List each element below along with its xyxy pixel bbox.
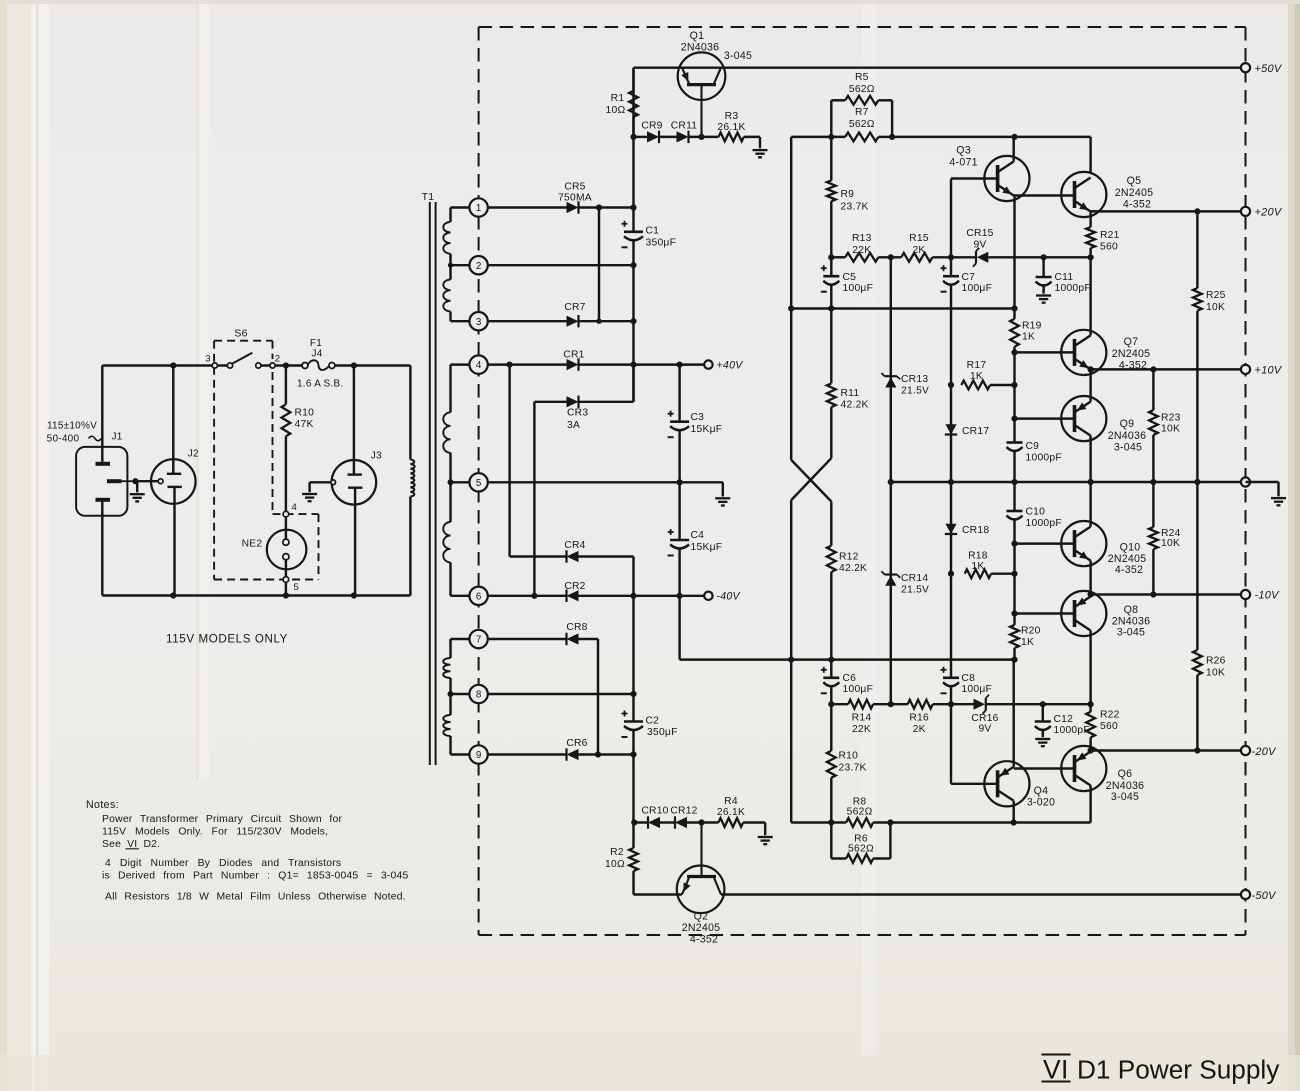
terminal -10V <box>1241 590 1250 599</box>
node R17 left <box>948 382 954 388</box>
wire tap4 to CR1 <box>488 363 567 365</box>
wire primary left vertical <box>101 366 103 450</box>
connector J2 <box>151 459 196 504</box>
node R22 top <box>1088 701 1094 707</box>
svg-text:50-400: 50-400 <box>47 434 80 445</box>
terminal +20V <box>1241 207 1250 216</box>
wire right chain lower R12 <box>830 502 832 546</box>
svg-text:D1 Power Supply: D1 Power Supply <box>1077 1055 1280 1085</box>
svg-text:R14: R14 <box>852 713 872 724</box>
svg-text:Q10: Q10 <box>1120 542 1141 554</box>
transformer tap 6 <box>469 587 487 605</box>
svg-text:10K: 10K <box>1161 538 1180 549</box>
node J3 bottom <box>351 592 357 598</box>
wire CR9-CR11 <box>659 136 677 138</box>
svg-text:42.2K: 42.2K <box>841 400 869 411</box>
wire CR9 line <box>634 136 648 138</box>
svg-text:1000pF: 1000pF <box>1026 453 1062 464</box>
svg-text:Q1: Q1 <box>690 30 705 42</box>
svg-text:3: 3 <box>476 317 482 328</box>
wire bus R19 <box>1010 319 1019 347</box>
diode CR11 <box>677 131 689 142</box>
svg-text:R10: R10 <box>839 751 859 762</box>
node CR13 bottom <box>888 479 894 485</box>
transformer tap 3 <box>469 312 487 330</box>
wire -10V line <box>1091 593 1246 595</box>
node bus CR7 <box>630 318 636 324</box>
svg-text:560: 560 <box>1100 721 1118 732</box>
transformer tap 9 <box>469 745 487 763</box>
svg-text:-40V: -40V <box>717 591 741 603</box>
svg-text:S6: S6 <box>234 328 247 340</box>
svg-text:1K: 1K <box>970 371 983 382</box>
wire +20V line <box>1091 210 1246 212</box>
dashed enclosure border right <box>1245 27 1247 935</box>
svg-text:Notes:: Notes: <box>86 799 119 811</box>
transistor Q8 2N4036 <box>1061 591 1106 636</box>
diode CR6 <box>567 749 579 760</box>
svg-text:CR8: CR8 <box>566 622 587 633</box>
wire CR3 to bus <box>579 401 634 403</box>
capacitor C6 100uF <box>830 660 832 678</box>
wire tap3 to CR7 <box>488 320 567 322</box>
wire CR10-CR12 <box>660 821 675 823</box>
node Q8 base <box>1011 610 1017 616</box>
resistor R22 560 <box>1086 712 1095 738</box>
svg-text:C11: C11 <box>1055 272 1074 283</box>
transistor Q10 2N2405 <box>1061 521 1106 566</box>
node R5R7 right <box>889 134 895 140</box>
svg-text:1000pF: 1000pF <box>1055 283 1091 294</box>
ground at tap5 <box>715 497 730 499</box>
svg-text:C7: C7 <box>962 272 976 283</box>
node bus 0V <box>1011 479 1017 485</box>
node R25R26 0V <box>1194 479 1200 485</box>
transistor Q3 4-071 <box>984 156 1029 201</box>
node S6-2/R10/F1 <box>283 362 289 368</box>
svg-text:R26: R26 <box>1206 656 1226 667</box>
wire Q4 collector riser <box>1012 801 1014 823</box>
svg-text:CR1: CR1 <box>563 350 584 361</box>
resistor R2 10ohm <box>632 823 634 849</box>
svg-text:C10: C10 <box>1026 507 1046 518</box>
node CR13 top <box>888 254 894 260</box>
svg-text:1K: 1K <box>971 561 984 572</box>
wire Q10 emitter riser <box>1089 561 1091 595</box>
node R20 bottom <box>1011 657 1017 663</box>
svg-text:R15: R15 <box>909 233 929 244</box>
transistor Q5 2N2405 <box>1061 172 1106 217</box>
node C8 bottom <box>948 701 954 707</box>
node filter tap5 <box>677 479 683 485</box>
wire CR4 to bus <box>579 555 634 557</box>
transformer tap 7 <box>469 630 487 648</box>
diode CR2 <box>567 590 579 601</box>
svg-text:750MA: 750MA <box>558 193 592 204</box>
svg-text:2N2405: 2N2405 <box>682 922 721 934</box>
resistor R9 23.7K <box>830 137 832 181</box>
svg-text:R3: R3 <box>725 111 739 122</box>
wire primary top <box>102 364 215 366</box>
svg-text:100μF: 100μF <box>962 283 993 294</box>
svg-text:VI: VI <box>1043 1055 1069 1085</box>
ground at C12 <box>1035 738 1050 740</box>
terminal +10V <box>1241 365 1250 374</box>
svg-text:2N2405: 2N2405 <box>1112 348 1151 360</box>
terminal +40V <box>704 360 712 368</box>
svg-text:+10V: +10V <box>1255 365 1283 377</box>
svg-text:1.6 A S.B.: 1.6 A S.B. <box>297 379 343 390</box>
node CR17 bottom <box>948 479 954 485</box>
svg-text:CR18: CR18 <box>962 525 989 536</box>
svg-text:10K: 10K <box>1206 302 1225 313</box>
svg-text:CR13: CR13 <box>901 374 928 385</box>
wire CR12 to R4 <box>687 821 718 823</box>
svg-text:350μF: 350μF <box>646 238 677 249</box>
node J1 center prong <box>132 478 138 484</box>
svg-text:Q9: Q9 <box>1120 418 1135 430</box>
fuse F1/J4 <box>302 363 308 369</box>
wire 0V line <box>891 481 1246 483</box>
transformer T1 primary winding <box>410 460 414 497</box>
resistor R10 47K <box>282 404 291 436</box>
node R25 top <box>1194 208 1200 214</box>
wire left chain lower <box>790 500 792 659</box>
ground at C11 <box>1036 294 1051 296</box>
ground at R3 <box>753 149 768 151</box>
diode CR4 <box>567 551 579 562</box>
wire Q10 collector riser <box>1089 482 1091 527</box>
transistor Q4 3-020 <box>984 761 1029 806</box>
svg-text:CR12: CR12 <box>670 806 697 817</box>
svg-text:C2: C2 <box>646 716 660 727</box>
svg-text:2N4036: 2N4036 <box>1108 430 1147 442</box>
svg-text:Q5: Q5 <box>1127 175 1142 187</box>
node C6 top <box>828 657 834 663</box>
svg-text:R25: R25 <box>1206 290 1226 301</box>
svg-text:R19: R19 <box>1022 321 1042 332</box>
node tap4 branch <box>507 362 513 368</box>
node Q9 collector 0V <box>1088 479 1094 485</box>
transformer tap 4 <box>469 355 487 373</box>
node R18 left <box>948 571 954 577</box>
transformer tap 2 <box>469 256 487 274</box>
node R21 bottom <box>1088 254 1094 260</box>
winding B loops 5-6 <box>443 522 450 562</box>
svg-text:CR15: CR15 <box>966 228 993 239</box>
wire C7 node to CR15 <box>951 256 976 258</box>
svg-text:4: 4 <box>292 502 298 513</box>
svg-text:J1: J1 <box>112 432 123 443</box>
wire C2 bus <box>632 596 634 722</box>
wire Q9 emitter riser <box>1089 369 1091 401</box>
winding C loops 8-9 <box>443 715 450 736</box>
switch S6 <box>212 363 217 368</box>
node Q9 base <box>1011 416 1017 422</box>
diode CR18 <box>945 524 956 534</box>
svg-text:10K: 10K <box>1161 424 1180 435</box>
svg-text:22K: 22K <box>852 724 871 735</box>
node bus CR1 <box>630 362 636 368</box>
ground at J1 <box>135 480 137 482</box>
wire Q9 base <box>1015 417 1075 419</box>
wire bias line upper <box>791 307 1014 309</box>
wire bus 352-385 <box>1013 352 1015 385</box>
svg-text:3-020: 3-020 <box>1027 797 1055 809</box>
svg-text:R23: R23 <box>1161 413 1181 424</box>
connector J1 <box>76 447 127 516</box>
svg-text:Q8: Q8 <box>1124 604 1139 616</box>
wire Q6 collector riser <box>1089 786 1091 823</box>
svg-text:C9: C9 <box>1026 441 1040 452</box>
diode CR5 750MA <box>567 202 579 213</box>
resistor R5 562ohm loop <box>830 100 832 137</box>
diode CR9 <box>647 131 659 142</box>
wire CR6 to bus <box>579 753 634 755</box>
wire CR16 to R22 <box>986 703 1091 705</box>
node C11 top <box>1041 254 1047 260</box>
node J3 top <box>351 362 357 368</box>
winding A vertical <box>449 208 451 222</box>
node +40V filter <box>677 362 683 368</box>
connector J3 <box>332 460 377 505</box>
lamp NE2 <box>267 530 307 570</box>
svg-text:1K: 1K <box>1022 332 1035 343</box>
svg-text:is Derived from Part Number :: is Derived from Part Number : Q1= 1853-0… <box>102 871 408 882</box>
transformer tap 5 <box>469 473 487 491</box>
tap 4 stub <box>451 363 470 365</box>
node bus CR9 <box>630 134 636 140</box>
svg-text:R21: R21 <box>1100 230 1120 241</box>
tap 1 stub <box>451 206 470 208</box>
node bus tap2 <box>630 262 636 268</box>
dashed enclosure border bottom <box>479 934 1246 936</box>
svg-text:23.7K: 23.7K <box>839 763 867 774</box>
svg-text:CR9: CR9 <box>641 121 662 132</box>
wire tap1 to CR5 <box>488 206 567 208</box>
svg-text:R22: R22 <box>1100 710 1120 721</box>
svg-text:CR16: CR16 <box>971 713 998 724</box>
wire J3 tip to ground <box>310 481 331 483</box>
wire R7 right to Q3 <box>892 136 1091 138</box>
svg-text:CR10: CR10 <box>641 806 668 817</box>
svg-text:1: 1 <box>476 203 481 214</box>
tap 2 stub <box>451 264 470 266</box>
svg-text:R2: R2 <box>610 847 624 858</box>
wire CR14 vertical <box>890 482 892 704</box>
svg-text:7: 7 <box>476 635 481 646</box>
resistor R24 10K <box>1152 482 1154 527</box>
diode CR16 9V <box>974 699 986 710</box>
node Q2 base <box>698 819 704 825</box>
node Q7 base <box>1011 349 1017 355</box>
dashed enclosure border left <box>478 27 480 935</box>
svg-text:100μF: 100μF <box>843 684 874 695</box>
dashed enclosure border top <box>479 26 1246 28</box>
svg-text:R5: R5 <box>855 72 869 83</box>
svg-text:3: 3 <box>205 354 211 365</box>
svg-text:CR5: CR5 <box>564 182 585 193</box>
resistor R15 2K <box>901 253 932 262</box>
svg-text:9: 9 <box>476 750 481 761</box>
node bus CR5 <box>630 204 636 210</box>
wire tap8 to bus <box>488 693 634 695</box>
svg-text:T1: T1 <box>422 191 435 203</box>
svg-text:-50V: -50V <box>1252 890 1278 902</box>
wire CR4 line left <box>510 555 567 557</box>
svg-text:C4: C4 <box>691 530 705 541</box>
wire filter bus C3C4 <box>678 365 680 422</box>
terminal -40V <box>704 592 712 600</box>
svg-text:4-071: 4-071 <box>949 157 977 169</box>
svg-text:1000pF: 1000pF <box>1054 725 1090 736</box>
terminal 0V <box>1241 477 1250 486</box>
wire S6-2 to R10 <box>285 366 287 405</box>
svg-text:3-045: 3-045 <box>1114 442 1142 454</box>
node left chain Y308 <box>788 305 794 311</box>
diode CR17 <box>945 424 956 434</box>
node CR2 out <box>630 593 636 599</box>
transistor Q6 2N4036 <box>1061 746 1106 791</box>
svg-text:C12: C12 <box>1054 714 1074 725</box>
tap 8 stub <box>451 693 470 695</box>
svg-text:115±10%V: 115±10%V <box>47 421 97 432</box>
node R13 left <box>828 254 834 260</box>
wire R8 line <box>791 821 846 823</box>
svg-text:R20: R20 <box>1021 626 1041 637</box>
ground at R4 <box>758 836 773 838</box>
svg-text:2: 2 <box>275 354 281 365</box>
transistor Q1 2N4036 <box>678 52 726 100</box>
wire tap2 to bus <box>488 264 634 266</box>
node CR10 left <box>631 819 637 825</box>
capacitor C5 100uF <box>830 257 832 276</box>
svg-text:21.5V: 21.5V <box>901 386 929 397</box>
wire CR8 riser <box>579 638 599 640</box>
node CR8 riser bottom <box>595 751 601 757</box>
svg-text:4 Digit Number By Diodes and T: 4 Digit Number By Diodes and Transistors <box>105 858 341 869</box>
tap 3 stub <box>451 320 470 322</box>
terminal -50V <box>1241 890 1250 899</box>
capacitor C3 15KuF <box>670 420 689 423</box>
node Q6 emitter junction <box>1088 747 1094 753</box>
svg-text:4: 4 <box>476 360 482 371</box>
svg-text:3-045: 3-045 <box>724 50 752 62</box>
svg-text:R7: R7 <box>855 107 869 118</box>
wire Q6 base line <box>1014 767 1075 769</box>
wire R7 to Q5 collector <box>1089 137 1091 172</box>
tap 5 stub <box>451 481 470 483</box>
diode CR1 <box>567 359 579 370</box>
resistor R14 22K <box>831 703 848 705</box>
svg-text:CR2: CR2 <box>564 581 585 592</box>
wire J1 to J2 <box>135 480 158 482</box>
wire bus R20 <box>1013 614 1015 625</box>
wire CR11 to R3 <box>689 136 719 138</box>
svg-text:15KμF: 15KμF <box>691 542 723 553</box>
diode CR12 <box>675 817 687 828</box>
svg-text:5: 5 <box>476 478 482 489</box>
svg-text:R13: R13 <box>852 233 872 244</box>
node CR5 riser bottom <box>596 319 601 324</box>
svg-text:J3: J3 <box>371 451 382 462</box>
node R24 bottom <box>1150 591 1156 597</box>
svg-text:Q3: Q3 <box>956 145 971 157</box>
svg-text:10K: 10K <box>1206 668 1225 679</box>
node C5 bottom <box>828 305 834 311</box>
wire X crossing <box>791 460 831 502</box>
node Q10 emitter junction <box>1088 591 1094 597</box>
terminal +50V <box>1241 63 1250 72</box>
wire CR5 to bus <box>579 206 634 208</box>
diode CR8 <box>567 633 579 644</box>
wire tap7 to CR8 <box>488 638 567 640</box>
diode CR7 <box>567 316 579 327</box>
svg-text:R1: R1 <box>611 93 625 104</box>
svg-text:R4: R4 <box>724 796 738 807</box>
svg-text:J2: J2 <box>188 449 199 460</box>
svg-text:+50V: +50V <box>1255 63 1283 75</box>
resistor R4 26.1K <box>718 818 743 827</box>
svg-text:3A: 3A <box>567 420 580 431</box>
svg-text:C3: C3 <box>691 412 705 423</box>
node J2 top <box>170 362 176 368</box>
resistor R6 562ohm loop <box>830 823 832 859</box>
svg-text:R9: R9 <box>841 189 855 200</box>
transistor Q7 2N2405 <box>1061 330 1106 375</box>
wire bus 543-613 <box>1013 544 1015 614</box>
resistor R3 26.1K <box>719 133 744 142</box>
svg-text:CR7: CR7 <box>564 302 585 313</box>
svg-text:8: 8 <box>476 690 482 701</box>
svg-text:C8: C8 <box>961 673 975 684</box>
svg-text:2: 2 <box>476 261 481 272</box>
svg-text:3-045: 3-045 <box>1111 791 1139 803</box>
node R10 bottom <box>828 819 834 825</box>
wire bus C10 <box>1013 482 1015 511</box>
wire CR3 line <box>534 401 566 403</box>
wire Q8 base <box>1015 612 1075 614</box>
transformer tap 1 <box>469 198 487 216</box>
node R26 bottom <box>1194 747 1200 753</box>
svg-text:562Ω: 562Ω <box>849 84 875 95</box>
node -40V filter <box>677 593 683 599</box>
svg-text:R11: R11 <box>841 388 860 399</box>
svg-text:4-352: 4-352 <box>1115 564 1143 576</box>
winding B loops 4-5 <box>443 412 450 452</box>
tap 9 stub <box>451 753 470 755</box>
node Q3 collector <box>1011 134 1017 140</box>
svg-text:R17: R17 <box>967 360 987 371</box>
transistor Q9 2N4036 <box>1061 396 1106 441</box>
svg-text:C6: C6 <box>843 673 857 684</box>
svg-text:C1: C1 <box>646 226 660 237</box>
wire Q7 base <box>1015 351 1075 353</box>
wire R8 line right <box>890 821 1090 823</box>
svg-text:15KμF: 15KμF <box>691 424 723 435</box>
resistor R16 2K <box>908 700 933 709</box>
wire primary right vertical <box>409 366 411 460</box>
node R18 right <box>1011 571 1017 577</box>
wire tap6 to CR2 <box>488 595 567 597</box>
node CR5 out <box>596 204 602 210</box>
wire R7 line <box>791 136 845 138</box>
svg-text:9V: 9V <box>973 240 986 251</box>
svg-text:Power Transformer Primary Circ: Power Transformer Primary Circuit Shown … <box>102 814 342 825</box>
svg-text:1K: 1K <box>1021 637 1034 648</box>
wire Q8 collector riser <box>1089 631 1091 705</box>
wire CR10 line <box>634 821 649 823</box>
